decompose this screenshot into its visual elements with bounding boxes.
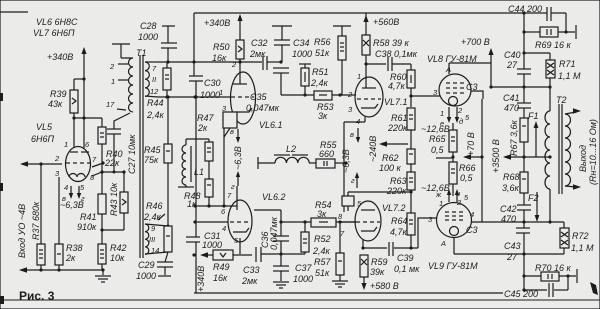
svg-text:2к: 2к [197, 123, 208, 133]
tube VL5 6Н6П [31, 122, 91, 182]
wire y155 to T2 center tap [524, 155, 552, 158]
T2 secondary winding [565, 112, 576, 187]
svg-text:1: 1 [219, 88, 223, 97]
resistor R64 4,7к [390, 213, 415, 248]
svg-text:0,5: 0,5 [431, 145, 445, 155]
VL7.2 grid wire from riser [340, 221, 356, 223]
svg-text:1000: 1000 [292, 49, 312, 59]
svg-text:VL9 ГУ-81М: VL9 ГУ-81М [428, 261, 478, 271]
input bottom wire with arrow [19, 267, 105, 273]
chassis bar at R65/R66 junction [436, 157, 453, 159]
svg-text:2,4к: 2,4к [146, 110, 165, 120]
wire R39 to tube pin 1 [72, 113, 102, 148]
svg-text:43к: 43к [48, 99, 63, 109]
svg-text:3: 3 [428, 215, 433, 224]
VL9 anode wire [454, 238, 564, 256]
svg-text:2к: 2к [65, 253, 76, 263]
resistor R60 4,7к [388, 64, 415, 107]
svg-text:Т1: Т1 [136, 48, 147, 58]
VL9 grid2 stub (pin 4) [470, 210, 474, 219]
svg-text:R52: R52 [314, 234, 331, 244]
T1 winding III (pins 9,14) [145, 214, 170, 255]
svg-text:+340В: +340В [196, 266, 206, 292]
capacitor C37 1000 with ground [273, 254, 313, 288]
resistor R59 39к with +580В arrow [360, 255, 399, 291]
resistor R45 75к [144, 95, 172, 226]
resistor R51 2,4к with top bar [299, 64, 329, 97]
tube VL6.1 [231, 72, 283, 130]
svg-text:2мк: 2мк [241, 276, 258, 286]
capacitor C43 27 [504, 222, 530, 262]
svg-text:22к: 22к [104, 158, 120, 168]
resistor R56 51к with top bar [314, 26, 351, 95]
svg-text:8: 8 [338, 212, 343, 221]
resistor R52 2,4к [281, 222, 331, 256]
svg-text:~240В: ~240В [368, 136, 378, 162]
-240В arrow label [368, 136, 408, 162]
svg-text:6: 6 [221, 207, 226, 216]
VL8 grid3 stub [471, 91, 483, 99]
svg-text:R67 3,6к: R67 3,6к [509, 119, 519, 156]
svg-text:+580 В: +580 В [370, 281, 399, 291]
resistor R50 16к [212, 40, 244, 84]
svg-text:16к: 16к [213, 273, 228, 283]
capacitor C39 0,1мк [389, 242, 420, 274]
resistor R37 680к (rotated label) [31, 164, 45, 270]
svg-text:1,1 М: 1,1 М [558, 71, 581, 81]
+340V supply arrow (middle) [204, 14, 243, 40]
svg-text:+70 В: +70 В [466, 132, 476, 156]
svg-text:Рис. 3: Рис. 3 [19, 289, 55, 303]
resistor R69 16к [522, 13, 571, 50]
tube VL7.2 pin numbers [338, 212, 345, 238]
+340V supply arrow (left stage) [47, 47, 87, 62]
tube VL7.1 [355, 77, 408, 117]
T1 winding II (pins 7,12) [145, 62, 159, 97]
capacitor C41 470 [503, 93, 531, 113]
tube VL5 pin numbers [54, 140, 97, 203]
svg-text:0,1 мк: 0,1 мк [394, 264, 420, 274]
capacitor C29 1000 [136, 260, 173, 281]
svg-text:7: 7 [227, 191, 232, 200]
svg-text:7: 7 [340, 229, 345, 238]
svg-text:3к: 3к [317, 209, 327, 219]
svg-text:С38 0,1мк: С38 0,1мк [375, 49, 418, 59]
resistor R63 220к [386, 172, 415, 213]
capacitor C34 1000 with top bar [272, 26, 312, 64]
resistor R43 10к (rotated label) [100, 172, 128, 232]
resistor R40 22к [98, 118, 123, 194]
svg-text:R44: R44 [147, 98, 164, 108]
resistor R62 100к [379, 149, 415, 173]
svg-text:VL6.1: VL6.1 [259, 120, 283, 130]
svg-text:1,1 М: 1,1 М [571, 243, 594, 253]
svg-text:2: 2 [347, 90, 353, 99]
svg-text:1000: 1000 [138, 32, 158, 42]
+70 В rotated label with arrow [463, 132, 482, 160]
svg-text:2мк: 2мк [249, 49, 266, 59]
resistor R71 1,1М [524, 53, 581, 89]
svg-text:С28: С28 [140, 21, 157, 31]
+560V top rail [194, 12, 547, 14]
capacitor C28 1000 [138, 21, 177, 62]
VL9 heater pins and arrows [421, 183, 469, 208]
svg-text:2: 2 [457, 106, 463, 115]
svg-text:в: в [350, 130, 354, 139]
svg-text:51к: 51к [315, 48, 330, 58]
resistor R42 10к [98, 230, 127, 270]
svg-text:2: 2 [54, 154, 60, 163]
wire y206 (VL6.1 cathodes / R48 / VL6.2) [193, 204, 237, 207]
+3500В rotated label with arrow [491, 139, 524, 173]
svg-text:II: II [152, 75, 156, 84]
svg-text:С33: С33 [243, 265, 260, 275]
svg-text:R62: R62 [382, 153, 399, 163]
input wire to grid (pin 2) with arrow [20, 161, 62, 167]
svg-text:4: 4 [64, 183, 68, 192]
svg-text:51к: 51к [315, 268, 330, 278]
svg-text:2,4к: 2,4к [310, 78, 329, 88]
svg-text:R49: R49 [213, 262, 230, 272]
svg-text:8: 8 [90, 173, 95, 182]
svg-text:С3: С3 [466, 225, 478, 235]
svg-text:1: 1 [357, 72, 361, 81]
svg-text:VL7 6Н6П: VL7 6Н6П [33, 28, 75, 38]
svg-text:С30: С30 [204, 78, 221, 88]
tube VL9 [437, 203, 478, 249]
svg-text:~12,6В: ~12,6В [421, 124, 450, 134]
svg-text:R37 680к: R37 680к [31, 201, 41, 240]
resistor R49 16к [213, 250, 252, 283]
svg-text:1000: 1000 [200, 90, 220, 100]
capacitor C30 1000 (on divider line) [189, 76, 221, 100]
wire rail y62 (T1 pin7 / C28 / R44 / R50 node) [158, 60, 262, 63]
svg-text:R66: R66 [459, 163, 476, 173]
svg-text:2: 2 [231, 60, 237, 69]
svg-text:R42: R42 [110, 243, 127, 253]
resistor R58 39к [362, 35, 410, 77]
svg-text:2: 2 [109, 62, 115, 71]
svg-text:+560В: +560В [373, 17, 399, 27]
svg-text:F1: F1 [528, 111, 539, 121]
capacitor C40 27 [504, 50, 531, 103]
svg-text:R70 16 к: R70 16 к [535, 263, 572, 273]
svg-text:С34: С34 [293, 38, 310, 48]
svg-text:~6,3В: ~6,3В [60, 200, 84, 210]
page divider bottom [0, 299, 600, 301]
svg-text:16к: 16к [212, 53, 227, 63]
ground under input wire [95, 270, 111, 282]
svg-text:R61: R61 [391, 113, 408, 123]
VL6.1 cathode wires down with pin8 stopper box [223, 112, 237, 206]
svg-text:1: 1 [111, 77, 115, 86]
svg-text:R65: R65 [429, 134, 447, 144]
svg-text:Вход УО ~4В: Вход УО ~4В [17, 204, 27, 258]
capacitor C35 0,047мк [246, 68, 289, 113]
svg-text:R57: R57 [314, 257, 332, 267]
svg-text:~6,3В: ~6,3В [341, 149, 351, 173]
svg-text:4,7к: 4,7к [388, 81, 406, 91]
resistor R48 1к [184, 179, 213, 209]
svg-text:R69 16 к: R69 16 к [535, 40, 572, 50]
svg-text:27: 27 [506, 60, 518, 70]
svg-text:F2: F2 [528, 193, 539, 203]
svg-text:10к: 10к [110, 253, 125, 263]
svg-text:А: А [445, 65, 451, 74]
VL9 grid riser from C39 row [418, 218, 437, 248]
svg-text:R39: R39 [50, 89, 67, 99]
VL8 anode wire to +700V [449, 37, 494, 89]
svg-text:5: 5 [80, 183, 85, 192]
capacitor C31 1000 (on divider line) [186, 231, 222, 250]
svg-text:С43: С43 [504, 241, 521, 251]
core [139, 55, 141, 258]
svg-text:+340В: +340В [47, 52, 73, 62]
svg-text:R59: R59 [371, 257, 388, 267]
svg-text:R41: R41 [80, 212, 97, 222]
svg-text:R38: R38 [66, 243, 83, 253]
svg-text:470: 470 [504, 103, 519, 113]
svg-text:1: 1 [64, 140, 68, 149]
page artifact bottom right [590, 282, 598, 295]
svg-text:12: 12 [150, 87, 159, 96]
svg-text:4: 4 [222, 224, 226, 233]
scan mark left edge 2 [0, 183, 3, 191]
resistor R65 0,5 [429, 123, 457, 162]
svg-text:R50: R50 [213, 42, 230, 52]
svg-text:7: 7 [92, 155, 97, 164]
tube VL6.2 pin numbers [221, 191, 239, 245]
inductor L2 with core [258, 144, 309, 169]
inductor L1 [178, 139, 204, 187]
svg-text:1000: 1000 [293, 274, 313, 284]
resistor R67 3,6к (rotated label) [509, 108, 528, 159]
resistor R54 3к [311, 200, 356, 227]
VL5 heater arrows and ~6,3В [60, 186, 84, 210]
svg-text:С42: С42 [500, 204, 517, 214]
svg-text:39к: 39к [370, 267, 385, 277]
wire y96 anode VL7.1 grid row [281, 94, 314, 96]
VL8 heater pins and arrows [421, 106, 470, 134]
wire pin8 to R43/C27 [92, 170, 126, 176]
svg-text:3: 3 [348, 105, 353, 114]
svg-text:R72: R72 [572, 231, 589, 241]
scan mark left edge [0, 93, 3, 101]
svg-text:С40: С40 [504, 50, 521, 60]
svg-text:в: в [230, 127, 234, 136]
svg-text:R47: R47 [197, 113, 215, 123]
svg-text:VL5: VL5 [36, 122, 53, 132]
G3 tie line x482 [480, 99, 483, 222]
svg-text:С27 10мк: С27 10мк [127, 134, 137, 174]
svg-text:д: д [459, 117, 463, 126]
svg-text:5: 5 [464, 193, 469, 202]
svg-text:1000: 1000 [136, 271, 156, 281]
svg-text:0,047мк: 0,047мк [269, 216, 279, 250]
svg-text:75к: 75к [144, 155, 159, 165]
page edge tick top-left [0, 11, 28, 13]
svg-text:0,047мк: 0,047мк [246, 103, 280, 113]
capacitor C45 200 [504, 276, 568, 299]
x524 snubber column top [522, 11, 525, 69]
resistor R47 2к [186, 113, 215, 179]
resistor R61 220к [387, 108, 415, 149]
svg-text:R64: R64 [391, 216, 408, 226]
svg-text:4,7к: 4,7к [390, 227, 408, 237]
wire y87 (VL8 anode rail) [491, 86, 550, 88]
svg-text:(Rн=10...16 Ом): (Rн=10...16 Ом) [588, 119, 598, 185]
tube VL8 [439, 65, 478, 106]
svg-text:С41: С41 [503, 93, 520, 103]
svg-text:А: А [440, 239, 446, 248]
svg-text:С39: С39 [397, 253, 414, 263]
svg-text:VL7.2: VL7.2 [382, 203, 406, 213]
svg-text:6Н6П: 6Н6П [31, 134, 55, 144]
svg-text:+700 В: +700 В [461, 37, 490, 47]
svg-text:100 к: 100 к [379, 163, 402, 173]
tube VL7.1 pin numbers [347, 72, 361, 126]
svg-text:ж: ж [435, 190, 442, 199]
transformer T2 [556, 95, 567, 194]
capacitor C36 0,047мк (rotated label) [254, 210, 289, 254]
svg-text:Выход: Выход [578, 145, 588, 172]
VL7.2 anode wire with pin 5 stopper [342, 192, 411, 211]
svg-text:R68: R68 [503, 172, 520, 182]
svg-text:3к: 3к [318, 111, 328, 121]
resistor R44 2,4к [146, 62, 171, 120]
scan mark left edge 3 [0, 296, 4, 304]
wire y222 (VL7.2 grid row) [279, 220, 311, 223]
resistor R68 3,6к [502, 157, 528, 205]
VL9 grid wire (pin 3) [428, 215, 433, 224]
wire y248 (VL7.2 cathode / C39 / R64) [361, 246, 387, 249]
heater riser x346 between VL7.1/VL7.2 [341, 117, 365, 208]
svg-text:+340В: +340В [204, 18, 230, 28]
wire pin7 to R40 [92, 161, 105, 167]
resistor R38 2к [55, 177, 83, 270]
svg-text:R56: R56 [314, 37, 331, 47]
svg-text:VL6 6Н8С: VL6 6Н8С [36, 17, 78, 27]
svg-text:С45 200: С45 200 [504, 289, 538, 299]
svg-text:2,4к: 2,4к [312, 246, 331, 256]
resistor R39 43к [48, 89, 78, 113]
capacitor C32 2мк [249, 38, 281, 70]
svg-text:5: 5 [234, 236, 239, 245]
tube VL7.2 [355, 201, 406, 248]
resistor R55 660 [309, 140, 348, 168]
tube VL6.2 [228, 186, 286, 254]
svg-text:R71: R71 [559, 59, 576, 69]
svg-text:L2: L2 [286, 144, 296, 154]
wire y254 (R49/C33 row) [192, 252, 213, 258]
svg-text:910к: 910к [77, 222, 97, 232]
svg-text:С35: С35 [250, 92, 268, 102]
svg-text:VL6.2: VL6.2 [262, 192, 286, 202]
svg-text:R46: R46 [146, 201, 163, 211]
VL6.1 grid wire [193, 95, 231, 98]
svg-text:220к: 220к [386, 186, 407, 196]
wire +340V feed down to VL5 [74, 62, 86, 148]
T2 primary winding [545, 87, 550, 222]
svg-text:27: 27 [506, 252, 518, 262]
T1 winding I (pins 2,1,17) [106, 58, 133, 112]
resistor R53 3к [314, 91, 356, 121]
capacitor C33 2мк [241, 247, 283, 286]
VL8 grid wire (pin 3) [411, 88, 440, 97]
svg-text:+3500 В: +3500 В [491, 139, 501, 173]
resistor R66 0,5 [449, 162, 476, 196]
VL6.2 grid wire [193, 220, 228, 223]
spark gap F2 [528, 192, 539, 222]
svg-text:14: 14 [151, 246, 159, 255]
svg-text:1: 1 [440, 109, 444, 118]
svg-text:С32: С32 [251, 38, 268, 48]
capacitor C38 0,1мк [366, 49, 418, 71]
svg-text:R45: R45 [144, 145, 162, 155]
svg-text:L1: L1 [194, 167, 204, 177]
svg-text:г: г [231, 182, 235, 191]
x524 column bottom [522, 254, 525, 292]
svg-text:5: 5 [465, 113, 470, 122]
wire rail y97 (T1 pin12 / R44 / R45 / VL6.1 grid node) [158, 95, 198, 98]
section divider vertical wire x194 [193, 13, 195, 76]
chassis bar above winding I [112, 43, 130, 45]
svg-text:2,4к: 2,4к [143, 212, 162, 222]
svg-text:III: III [149, 235, 155, 244]
svg-text:R51: R51 [312, 67, 329, 77]
resistor R57 51к with ground [314, 222, 348, 287]
transformer T1 [112, 44, 147, 258]
svg-text:R43 10к: R43 10к [109, 182, 119, 216]
svg-text:R58 39 к: R58 39 к [373, 38, 410, 48]
resistor R72 1,1М [560, 222, 594, 254]
resistor R41 910к [77, 194, 106, 232]
svg-text:R63: R63 [390, 176, 407, 186]
svg-text:0,5: 0,5 [460, 173, 474, 183]
section box bottom edge [194, 292, 503, 294]
resistor R46 2,4к [143, 201, 172, 262]
svg-text:3: 3 [55, 169, 60, 178]
svg-text:4: 4 [470, 210, 474, 219]
svg-text:660: 660 [319, 149, 334, 159]
terminal bar right of R69 [558, 25, 576, 39]
svg-text:17: 17 [106, 100, 115, 109]
tube VL6.1 pin numbers [219, 60, 237, 127]
capacitor C27 10мк (rotated label) [107, 113, 137, 174]
capacitor C44 200 on top rail [508, 4, 566, 21]
capacitor C42 470 [500, 204, 531, 224]
svg-text:С37: С37 [295, 263, 313, 273]
svg-text:~6,3В: ~6,3В [233, 146, 243, 170]
svg-text:220к: 220к [387, 123, 408, 133]
resistor R70 16к [524, 263, 576, 281]
wire y222 (VL9 grid2/anode rail) [471, 220, 564, 223]
output terminal arrows [573, 108, 581, 190]
VL6 heater riser with arrows ~6,3В [230, 127, 243, 191]
svg-text:г: г [351, 176, 355, 185]
spark gap F1 [528, 111, 539, 157]
svg-text:VL7.1: VL7.1 [384, 97, 408, 107]
svg-text:1000: 1000 [202, 240, 222, 250]
svg-text:6: 6 [85, 140, 90, 149]
svg-text:Т2: Т2 [556, 95, 567, 105]
svg-text:С29: С29 [138, 260, 155, 270]
+560V supply arrow [363, 13, 399, 35]
svg-text:7: 7 [152, 64, 157, 73]
terminal bar right of R70 [576, 269, 578, 283]
svg-text:3,6к: 3,6к [502, 183, 520, 193]
